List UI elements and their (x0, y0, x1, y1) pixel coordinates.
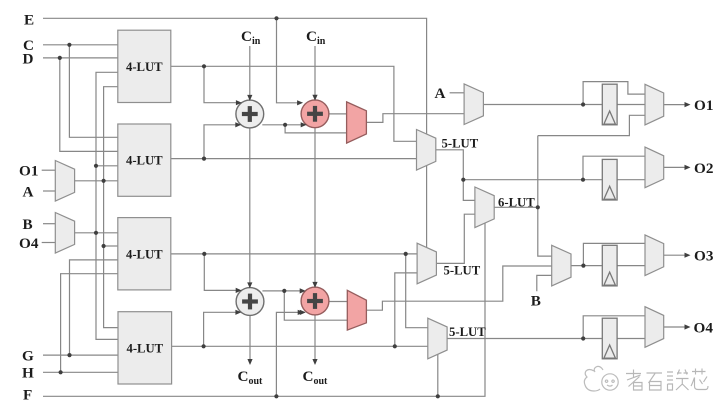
wire 5LUT mux3 out to FF4 (447, 338, 602, 340)
output mux O3 (645, 235, 664, 276)
wire A-mux out to FF1 (483, 104, 602, 106)
wire Cin2 (314, 46, 316, 97)
wire O4 mux out (664, 326, 688, 328)
flip-flop FF3 (602, 245, 617, 286)
wire C input (43, 44, 118, 46)
output mux O2 (645, 147, 664, 188)
wire 6LUT to O1 mux (538, 115, 645, 135)
mux B select (552, 245, 571, 286)
watermark logo cat (584, 366, 618, 391)
carry mux X1 (347, 102, 367, 143)
4-LUT 2 (118, 124, 171, 196)
wire B input (537, 275, 552, 291)
svg-text:A: A (23, 184, 34, 201)
wire LUT3 output (170, 253, 417, 255)
wire mux X2 output to B mux (366, 266, 551, 310)
watermark text (626, 369, 708, 391)
wire FF4 out (617, 338, 645, 340)
output mux O1 (645, 84, 664, 125)
wire G input (43, 354, 118, 356)
wire adder U2 out to mux X1 (329, 113, 347, 115)
wire A input (43, 190, 55, 192)
flip-flop FF4 (602, 318, 617, 359)
4-LUT 4 (118, 312, 172, 384)
wire LUT4 branch to 5LUT mux2 (395, 273, 417, 346)
svg-text:5-LUT: 5-LUT (449, 325, 486, 339)
input mux M1 (55, 161, 74, 202)
svg-text:B: B (531, 293, 541, 310)
svg-text:5-LUT: 5-LUT (442, 137, 479, 151)
4-LUT 1 (118, 30, 171, 102)
wire bus M2 to LUT2 (96, 165, 118, 167)
wire 5LUT mux1 out (436, 150, 475, 201)
wire Cout2 (314, 315, 316, 364)
wire bus M2 vertical (96, 72, 118, 339)
svg-text:G: G (22, 347, 34, 364)
wire G branch to LUT3 (70, 260, 118, 355)
wire Cout1 (249, 315, 251, 363)
wire LUT1 to adder U1 (204, 66, 238, 102)
svg-text:D: D (23, 50, 34, 67)
wire LUT4 output (172, 345, 428, 347)
wire O2 mux out (664, 166, 688, 168)
wire adder U3 sum out (262, 290, 301, 292)
wire Cin1 (249, 46, 251, 97)
wire carry U1 to U3 (249, 128, 251, 285)
wire H branch to LUT3 (61, 274, 118, 373)
wire mux M1 output to LUT2 (75, 180, 118, 182)
adder U4 (301, 287, 329, 315)
wire E branch to carry adder U2 (277, 18, 301, 103)
svg-text:4-LUT: 4-LUT (126, 247, 163, 261)
wire F branch to adder U4 (276, 312, 301, 396)
wire O2 register bypass (583, 156, 645, 180)
svg-text:4-LUT: 4-LUT (126, 154, 163, 168)
arrowheads (236, 100, 242, 105)
wire LUT1 output (171, 66, 417, 141)
wire to O2 stage (463, 179, 602, 181)
svg-text:6-LUT: 6-LUT (498, 196, 535, 210)
junction dots (274, 16, 278, 20)
wire D input (43, 57, 118, 59)
wire O1 register bypass (583, 82, 645, 105)
wire mux X1 output (366, 114, 464, 123)
wire E input line (43, 18, 427, 248)
svg-text:O4: O4 (19, 235, 39, 252)
wire FF1 out (617, 104, 645, 106)
svg-text:O4: O4 (694, 320, 714, 337)
wire FF3 out (617, 265, 645, 267)
adder U3 (236, 288, 264, 316)
wire LUT3 to adder U3 (204, 254, 237, 291)
svg-text:A: A (435, 85, 446, 102)
wire U1 sum to red mux X1 (285, 125, 347, 133)
4-LUT 3 (118, 218, 171, 290)
wire O3 mux out (664, 254, 688, 256)
svg-text:4-LUT: 4-LUT (126, 60, 163, 74)
wire O1 feedback input (42, 169, 56, 171)
mux 5-LUT 1 (417, 130, 436, 171)
svg-text:O2: O2 (694, 160, 713, 177)
mux 6-LUT (475, 187, 494, 228)
svg-text:O3: O3 (694, 248, 714, 265)
flip-flop FF1 (602, 84, 617, 125)
wire adder U4 out to mux X2 (329, 301, 347, 303)
svg-text:E: E (24, 11, 34, 28)
wire 5LUT mux2 out (436, 214, 475, 263)
wire O1 mux out (664, 104, 688, 106)
carry mux X2 (347, 290, 366, 330)
wire H input (43, 371, 118, 373)
wire F input line (43, 223, 485, 396)
wire U3 sum to red mux X2 (284, 291, 347, 320)
wire B mux out to FF3 (571, 265, 602, 267)
adder U2 (301, 100, 329, 128)
wire adder U1 sum out (262, 124, 302, 126)
wire O3 register bypass (583, 243, 645, 265)
wire bus M1 vertical (104, 87, 118, 328)
svg-text:5-LUT: 5-LUT (444, 264, 481, 278)
wire FF2 out (617, 179, 645, 181)
mux 5-LUT 2 (417, 243, 436, 284)
adder U1 (236, 100, 264, 128)
svg-text:B: B (23, 216, 33, 233)
wire D branch to LUT2 (60, 58, 118, 151)
svg-text:O1: O1 (694, 97, 713, 114)
wire bus M1 to LUT3 (104, 245, 118, 247)
wire C branch to LUT2 (69, 45, 117, 138)
wire LUT2 output (170, 158, 417, 160)
wire O4 register bypass (583, 316, 645, 339)
svg-text:O1: O1 (19, 162, 38, 179)
wire U2 carry down (314, 128, 316, 284)
mux 5-LUT 3 (428, 318, 447, 359)
svg-text:4-LUT: 4-LUT (126, 341, 163, 355)
output mux O4 (645, 307, 664, 348)
wire A to mux (450, 92, 465, 94)
wire F branch select mux 5LUT3 (437, 354, 439, 396)
wire 6LUT mux out (494, 206, 538, 208)
wire LUT4 to adder U3 (204, 312, 238, 346)
svg-text:H: H (22, 365, 34, 382)
input mux M2 (55, 213, 74, 254)
mux A select (464, 84, 483, 125)
wire mux M2 output to LUT3 (75, 232, 118, 234)
wire LUT3 branch to 5LUT mux3 (406, 254, 428, 328)
wire B feedback input (43, 223, 55, 225)
flip-flop FF2 (602, 159, 617, 200)
wire 6LUT bus vertical (538, 136, 552, 257)
wire O4 feedback input (42, 242, 56, 244)
svg-text:F: F (23, 387, 32, 404)
wire LUT2 to adder U1 (204, 125, 237, 159)
